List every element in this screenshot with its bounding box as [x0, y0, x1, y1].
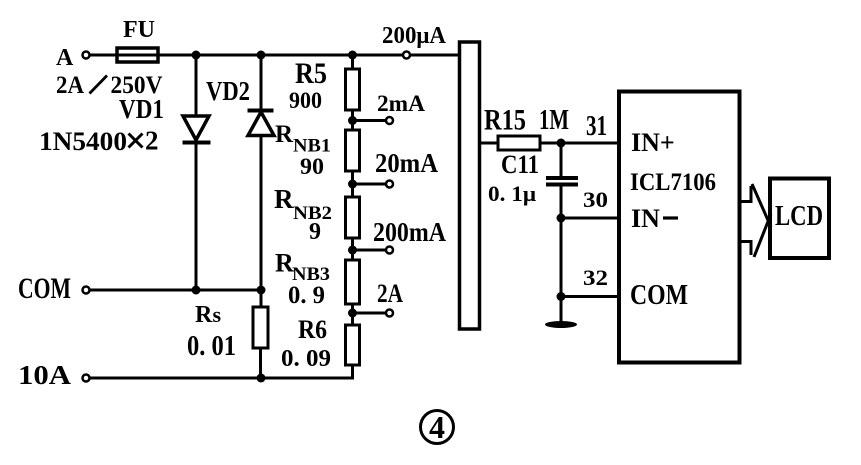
svg-text:IN: IN — [631, 204, 660, 233]
svg-text:COM: COM — [630, 279, 688, 311]
svg-text:200μA: 200μA — [382, 23, 447, 49]
svg-text:ICL7106: ICL7106 — [630, 169, 716, 196]
svg-text:0. 09: 0. 09 — [281, 346, 331, 372]
svg-text:0. 1μ: 0. 1μ — [488, 181, 537, 206]
svg-text:COM: COM — [18, 272, 71, 305]
svg-text:C11: C11 — [501, 150, 539, 179]
svg-text:32: 32 — [583, 265, 608, 290]
svg-text:4: 4 — [429, 409, 445, 445]
svg-text:A: A — [56, 45, 74, 71]
svg-text:R5: R5 — [295, 57, 327, 90]
svg-text:31: 31 — [586, 111, 607, 142]
svg-text:0. 9: 0. 9 — [288, 282, 325, 309]
svg-text:s: s — [213, 302, 222, 327]
svg-text:1M: 1M — [539, 105, 569, 136]
svg-text:90: 90 — [300, 154, 324, 179]
svg-text:900: 900 — [289, 88, 322, 113]
svg-text:R: R — [195, 302, 213, 328]
svg-text:30: 30 — [583, 187, 608, 212]
svg-text:200mA: 200mA — [373, 217, 446, 247]
svg-text:0. 01: 0. 01 — [187, 330, 236, 362]
svg-text:20mA: 20mA — [375, 148, 438, 178]
svg-text:R: R — [275, 121, 294, 148]
svg-text:10A: 10A — [18, 360, 72, 390]
svg-text:2mA: 2mA — [377, 91, 425, 116]
svg-text:9: 9 — [309, 219, 321, 245]
svg-text:IN+: IN+ — [631, 128, 675, 157]
svg-text:FU: FU — [123, 17, 155, 43]
svg-text:R6: R6 — [298, 315, 327, 344]
svg-text:LCD: LCD — [775, 201, 823, 232]
svg-text:2A: 2A — [56, 72, 84, 99]
svg-text:VD1: VD1 — [119, 94, 164, 124]
svg-text:1N5400: 1N5400 — [39, 127, 127, 156]
svg-text:2: 2 — [145, 126, 159, 156]
svg-text:VD2: VD2 — [206, 76, 250, 106]
svg-text:R: R — [274, 184, 294, 214]
svg-text:2A: 2A — [377, 279, 403, 308]
svg-text:R15: R15 — [484, 104, 526, 137]
